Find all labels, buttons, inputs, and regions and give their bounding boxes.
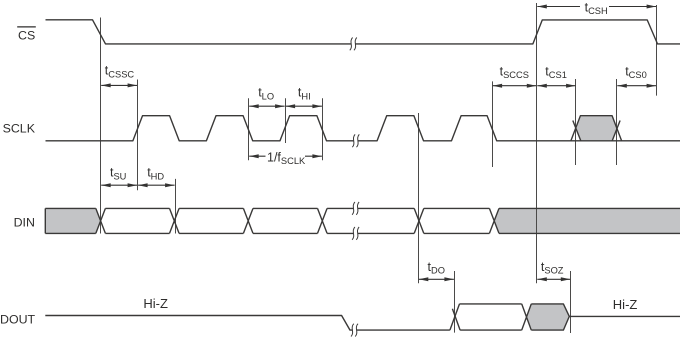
SCLK break squiggle (352, 134, 359, 147)
tSCCS arrowheads (493, 84, 503, 88)
SCLK gray hexagon X left ascending (571, 116, 622, 141)
DOUT break squiggle (351, 324, 358, 337)
tLO arrowheads (249, 104, 259, 108)
tHI arrow shaft (286, 105, 322, 107)
DOUT data bus bottom (460, 329, 522, 331)
svg-text:SCLK: SCLK (3, 122, 36, 136)
svg-text:tSCCS: tSCCS (500, 64, 529, 80)
marker DOUT Hi-Z / tSOZ right (570, 271, 572, 333)
DIN bottom break gap (354, 232, 358, 234)
1/fSCLK arrow right shaft (305, 155, 322, 157)
DOUT right Hi-Z tail (569, 315, 680, 317)
marker SCLK rise 1 / tCSSC right tSU-tHD divider (137, 80, 139, 191)
SCLK gray hexagon X left descending arm (573, 121, 581, 141)
SCLK break gap (354, 140, 358, 142)
tHI arrowheads (286, 104, 296, 108)
break gaps (351, 43, 357, 332)
svg-text:tCS0: tCS0 (625, 64, 647, 80)
tCS1 arrow shaft (537, 85, 575, 87)
svg-text:tHI: tHI (298, 86, 311, 102)
SCLK gray hexagon fill (576, 116, 616, 140)
tDO arrow shaft (419, 278, 454, 280)
marker SCLK gray end / tCS0 left (616, 79, 618, 165)
tLO arrow shaft (249, 105, 284, 107)
svg-text:DIN: DIN (14, 216, 35, 230)
DOUT open crossing ascending (450, 304, 460, 330)
marker DOUT valid / tDO right (454, 271, 456, 333)
svg-text:tDO: tDO (428, 260, 445, 276)
timing marker lines (101, 3, 657, 333)
marker SCLK last fall / tDO left (long) (418, 113, 420, 283)
DIN right gray segment fill (494, 209, 680, 234)
SCLK waveform (46, 116, 680, 141)
tCSH arrow right shaft (609, 6, 656, 8)
svg-text:tCSH: tCSH (585, 0, 608, 16)
svg-text:Hi-Z: Hi-Z (613, 297, 638, 312)
DIN crossing 3 (243, 208, 253, 233)
SCLK gray hexagon X right ascending arm (612, 121, 620, 141)
DIN left gray segment fill (45, 209, 100, 234)
DIN top line (45, 207, 680, 209)
svg-text:tHD: tHD (147, 166, 164, 182)
DIN bottom line (45, 232, 680, 234)
svg-text:1/fSCLK: 1/fSCLK (267, 150, 306, 166)
1/fSCLK arrow left shaft (249, 155, 265, 157)
DOUT break gap (353, 329, 357, 331)
svg-text:tSU: tSU (110, 166, 126, 182)
svg-text:tSOZ: tSOZ (541, 260, 564, 276)
DOUT gray hexagon outline (531, 304, 569, 330)
DIN top break squiggle (352, 202, 359, 215)
tSU arrowheads (101, 183, 111, 187)
CS break squiggle (350, 38, 357, 51)
tDO arrowheads (419, 277, 429, 281)
tCSH arrowheads (537, 5, 547, 9)
timing annotations text (105, 0, 647, 275)
CS waveform (46, 20, 680, 44)
marker tHI right / 1/fSCLK right (322, 98, 324, 160)
DIN crossing 1 (96, 208, 106, 233)
svg-text:tCSSC: tCSSC (105, 64, 135, 80)
DOUT data bus top (460, 303, 522, 305)
CS overline (17, 26, 36, 28)
tCS0 arrowheads (617, 84, 627, 88)
DIN bottom break squiggle (352, 227, 359, 240)
dimension arrows (101, 7, 656, 280)
CS break gap (351, 43, 355, 45)
DIN crossing 2 (170, 208, 180, 233)
svg-text:Hi-Z: Hi-Z (143, 296, 168, 311)
DOUT crossing 2 (522, 304, 532, 330)
DOUT waveform left Hi-Z (45, 316, 450, 331)
tCSSC arrowheads (101, 83, 111, 87)
1/fSCLK arrowheads (249, 154, 259, 158)
DIN top break gap (354, 207, 358, 209)
tCS1 arrowheads (537, 84, 547, 88)
tCS0 arrow shaft (617, 85, 656, 87)
svg-text:tCS1: tCS1 (545, 64, 567, 80)
signal name labels (0, 29, 36, 327)
marker SCLK resume / tCS1 right (575, 79, 577, 165)
tSOZ arrowheads (537, 277, 547, 281)
svg-text:CS: CS (18, 29, 35, 43)
marker CS fall / tCSSC tSU left (long) (100, 18, 102, 234)
marker tLO-tHI divider (285, 98, 287, 143)
tCSH arrow left shaft (537, 6, 580, 8)
DOUT gray hexagon fill (527, 304, 569, 329)
DIN crossing 6 (489, 208, 499, 233)
svg-text:tLO: tLO (258, 86, 274, 102)
marker CS fall 2 / tCSH right tCS0 right (656, 5, 658, 96)
DIN left edge (44, 208, 46, 233)
tSU arrow shaft (101, 184, 137, 186)
tHD arrow shaft (138, 184, 175, 186)
tHD arrowheads (138, 183, 148, 187)
tSOZ arrow shaft (537, 278, 570, 280)
marker tLO left / 1/fSCLK left (248, 98, 250, 160)
marker DIN change / tHD right (175, 179, 177, 234)
DIN crossing 5 (414, 208, 424, 233)
DIN crossing 4 (318, 208, 328, 233)
svg-text:DOUT: DOUT (0, 313, 36, 327)
tSCCS arrow shaft (493, 85, 537, 87)
marker SCLK stop / tSCCS left (492, 81, 494, 167)
marker CS rise / tCSH left tCS1 left tSOZ left (long) (536, 3, 538, 283)
DOUT open crossing descending arm (452, 309, 460, 330)
tCSSC arrow shaft (101, 84, 137, 86)
